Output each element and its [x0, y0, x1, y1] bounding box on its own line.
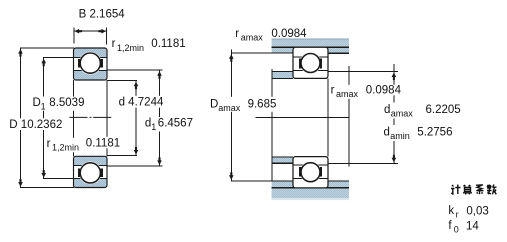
housing right side line: [348, 66, 350, 166]
bottom band fade edge: [272, 198, 349, 200]
dimension d: bottom arrowhead: [134, 147, 139, 155]
housing bore line (top): [272, 46, 349, 48]
label ramax 0.0984 (right): [329, 84, 403, 99]
right view: bearing upper cross-section: [293, 47, 328, 78]
housing band top: [272, 39, 349, 54]
dimension B: right arrowhead: [98, 29, 106, 34]
svg-text:d 4.7244: d 4.7244: [119, 96, 164, 108]
svg-text:1,2min: 1,2min: [117, 43, 144, 53]
svg-text:d: d: [384, 104, 390, 116]
dimension D1: top extension line: [43, 57, 74, 59]
dimension da: bottom arrowhead: [392, 155, 397, 163]
dimension d: top arrowhead: [134, 82, 139, 90]
dimension d1: top extension line: [107, 69, 163, 71]
ball (lower): [301, 163, 320, 182]
svg-text:D: D: [33, 97, 41, 109]
inner ring shoulder edge: [294, 69, 328, 71]
dimension Da: top extension line: [231, 52, 293, 54]
svg-text:0: 0: [454, 225, 459, 235]
dimension D1: dimension line: [43, 58, 45, 179]
dimension d1: bottom arrowhead: [157, 157, 162, 165]
dimension B: left arrowhead: [75, 29, 83, 34]
svg-text:6.4567: 6.4567: [158, 118, 193, 130]
svg-text:r: r: [112, 38, 116, 50]
lower section raceway gap: [74, 166, 106, 179]
right shoulder mark: [320, 167, 322, 177]
svg-text:amax: amax: [241, 33, 264, 43]
dimension B: left extension line: [73, 28, 75, 44]
bearing right face line: [106, 80, 108, 156]
top band left shoulder: [272, 47, 293, 53]
character 系: [476, 185, 484, 195]
label D1 8.5039: [30, 97, 87, 112]
outer ring inner edge: [74, 178, 107, 180]
dimension B: right extension line: [105, 28, 107, 45]
left shoulder top edge: [272, 180, 293, 182]
groove clearance: [300, 162, 321, 183]
dimension Da: bottom extension line: [231, 180, 272, 182]
left shoulder mark: [78, 59, 80, 68]
dimension D1: top arrowhead: [41, 59, 46, 67]
label ramax 0.0984 (top): [235, 28, 307, 43]
svg-text:k: k: [448, 205, 454, 217]
ball (upper): [301, 54, 320, 73]
svg-text:8.5039: 8.5039: [49, 97, 84, 109]
label Damax 9.685: [208, 97, 279, 113]
svg-text:amax: amax: [391, 109, 414, 119]
svg-text:9.685: 9.685: [248, 99, 277, 111]
top band upper edge: [272, 38, 349, 40]
svg-text:0.1181: 0.1181: [151, 38, 185, 50]
dimension D: top arrowhead: [18, 49, 23, 57]
outer ring inner edge: [294, 56, 328, 58]
right view: bearing lower cross-section: [293, 157, 328, 188]
svg-text:amax: amax: [218, 103, 241, 113]
label r1,2min 0.1181 (top): [110, 38, 187, 53]
dimension d: top extension line: [107, 80, 138, 82]
right shoulder bottom edge: [328, 52, 349, 54]
bottom band left shoulder: [272, 181, 293, 188]
dimension D1: bottom extension line: [43, 178, 74, 180]
svg-text:B 2.1654: B 2.1654: [79, 8, 126, 20]
housing band bottom: [272, 181, 349, 200]
svg-text:1: 1: [41, 102, 46, 112]
bearing left face line: [73, 80, 75, 156]
axis centerline (left view): [69, 116, 111, 118]
dimension B: dimension line: [74, 30, 108, 32]
housing bore line (bottom): [272, 187, 349, 189]
left shoulder mark: [299, 167, 301, 177]
svg-text:0.0984: 0.0984: [271, 28, 307, 40]
label f0 14: [448, 220, 479, 235]
dimension D: dimension line: [20, 48, 22, 188]
inner ring shoulder edge: [74, 70, 107, 72]
dimension da: dimension line: [393, 64, 395, 163]
ball (lower): [80, 163, 100, 183]
svg-text:6.2205: 6.2205: [426, 104, 461, 116]
housing left side line: [271, 69, 273, 181]
right shoulder mark: [320, 59, 322, 69]
label damax 6.2205: [380, 103, 462, 119]
svg-text:d: d: [384, 127, 390, 139]
right shoulder top edge: [328, 180, 349, 182]
ball (upper): [80, 53, 100, 73]
right shoulder mark: [101, 169, 103, 178]
label d1 6.4567: [143, 117, 195, 132]
dimension d1: dimension line: [159, 70, 161, 166]
top band right shoulder: [328, 47, 349, 53]
svg-text:r: r: [331, 85, 335, 97]
dimension Da: bottom arrowhead: [229, 172, 234, 180]
dimension d1: bottom extension line: [107, 165, 163, 167]
svg-text:amin: amin: [390, 131, 410, 141]
character 数: [487, 185, 497, 195]
upper section ring block: [74, 48, 108, 80]
dimension Da: dimension line: [230, 50, 232, 181]
bearing right face line (right view): [327, 78, 329, 156]
label d 4.7244: [117, 96, 166, 109]
left shoulder mark: [78, 169, 80, 178]
label kr 0,03: [448, 205, 488, 219]
heading 计算系数 (calculation factors, drawn as paths): [451, 185, 497, 195]
dimension D: bottom extension line: [20, 187, 74, 189]
right shoulder mark: [101, 59, 103, 68]
top band body: [272, 39, 349, 48]
svg-text:r: r: [47, 138, 51, 150]
svg-text:D: D: [210, 99, 218, 111]
left shoulder mark: [299, 59, 301, 69]
svg-text:5.2756: 5.2756: [417, 127, 452, 139]
dimension d: bottom extension line: [107, 155, 138, 157]
groove clearance: [79, 52, 102, 75]
shaft shoulder piece bottom: [272, 157, 293, 163]
svg-text:0.0984: 0.0984: [366, 84, 402, 96]
axis centerline (right view): [256, 116, 349, 118]
lower section outline: [293, 157, 328, 188]
dimension da: bottom extension line: [328, 162, 398, 164]
upper section outline: [293, 47, 328, 78]
lower section ring block: [74, 156, 108, 187]
dimension da: top extension line: [328, 70, 398, 72]
upper section raceway gap: [74, 58, 106, 71]
groove clearance: [79, 162, 102, 185]
outer ring inner edge: [294, 177, 328, 179]
label r1,2min 0.1181 (bottom): [45, 137, 121, 153]
character 计: [451, 185, 461, 195]
svg-text:14: 14: [466, 220, 479, 232]
outer ring inner edge: [74, 57, 107, 59]
left view: bearing lower cross-section: [74, 156, 108, 187]
character 算: [463, 185, 472, 195]
label damin 5.2756: [379, 125, 455, 141]
svg-text:1: 1: [151, 122, 156, 132]
svg-text:amax: amax: [336, 89, 359, 99]
dimension da: top arrowhead: [392, 72, 397, 80]
svg-text:D 10.2362: D 10.2362: [9, 119, 62, 131]
bottom band body: [272, 188, 349, 198]
svg-text:0,03: 0,03: [466, 205, 488, 217]
dimension D: bottom arrowhead: [18, 179, 23, 187]
svg-text:r: r: [456, 209, 459, 219]
inner ring shoulder edge: [74, 165, 107, 167]
shaft shoulder piece top: [272, 71, 293, 78]
bottom band right shoulder: [328, 181, 349, 188]
label D 10.2362: [7, 118, 63, 131]
dimension d: dimension line: [135, 81, 137, 156]
svg-text:1,2min: 1,2min: [52, 143, 79, 153]
label B 2.1654: [77, 8, 127, 20]
svg-text:0.1181: 0.1181: [86, 138, 120, 150]
inner ring shoulder edge: [294, 164, 328, 166]
dimension d1: top arrowhead: [157, 71, 162, 79]
groove clearance: [300, 52, 321, 73]
dimension D1: bottom arrowhead: [41, 170, 46, 178]
dimension Da: top arrowhead: [229, 54, 234, 62]
dimension D: top extension line: [20, 47, 74, 49]
svg-text:r: r: [235, 28, 239, 40]
left view: bearing upper cross-section: [74, 48, 108, 80]
